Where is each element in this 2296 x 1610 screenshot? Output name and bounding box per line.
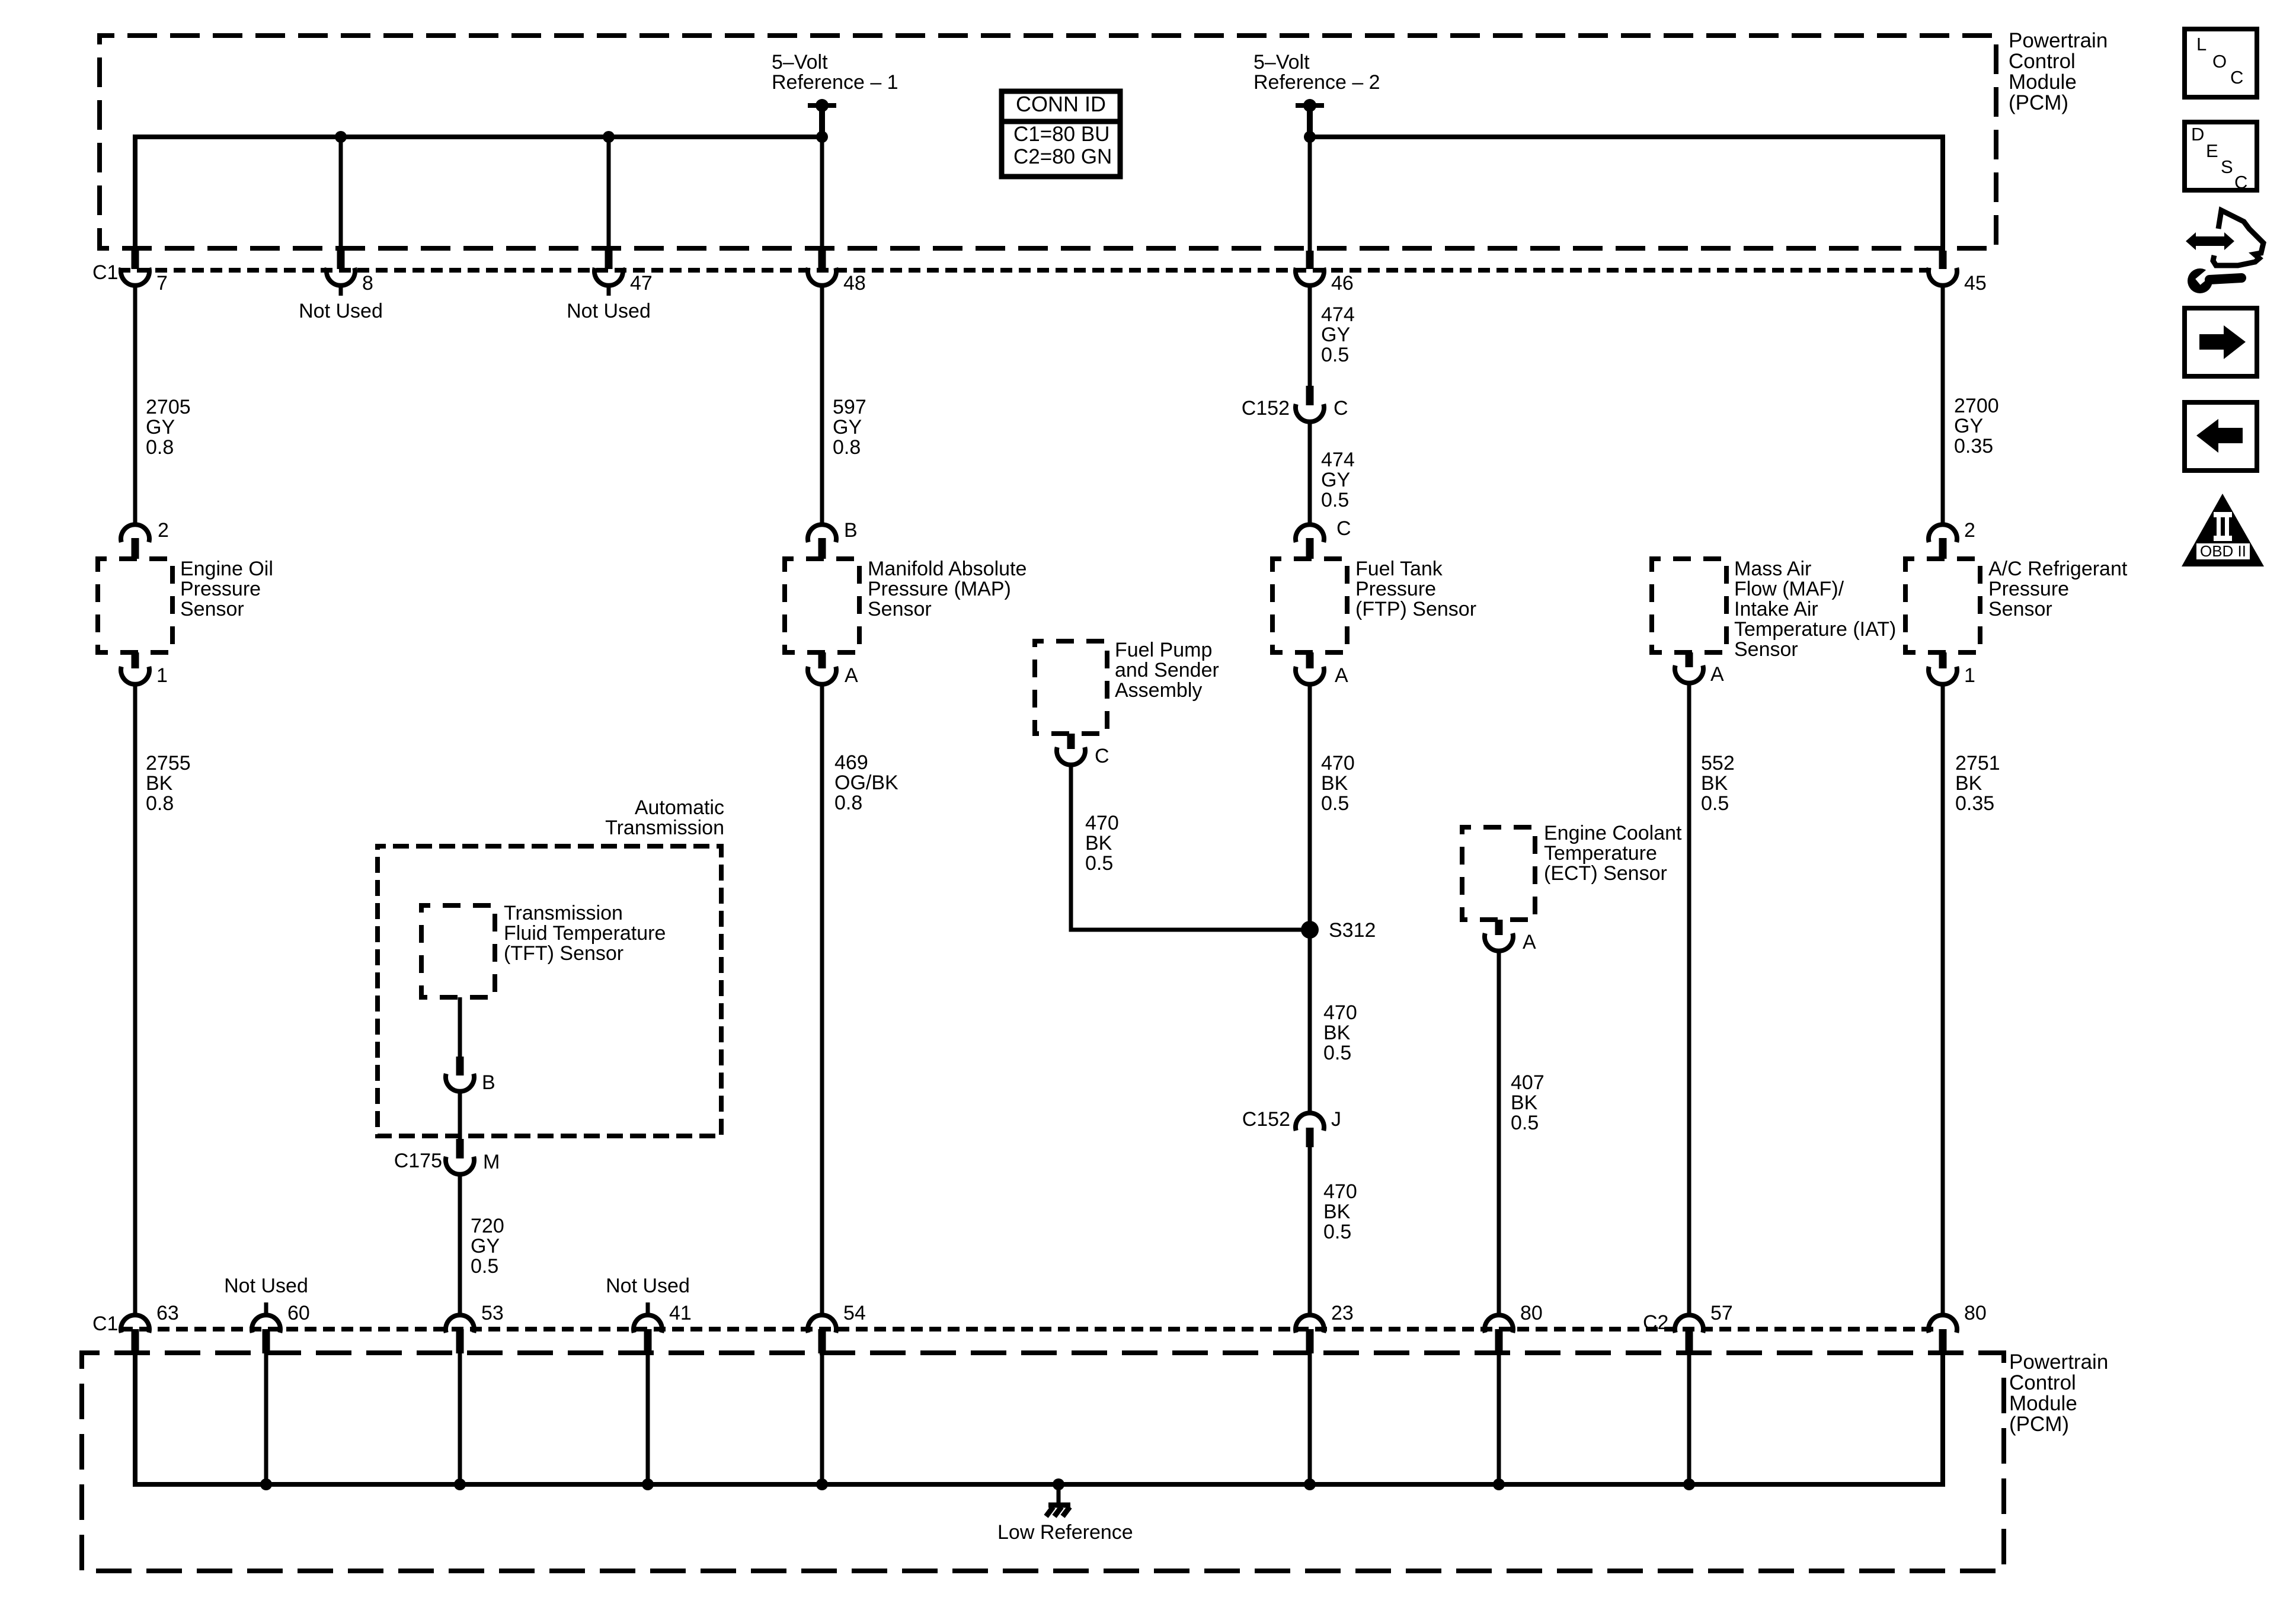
junction dot bus x 2850 xyxy=(1683,1478,1695,1490)
TFT sensor box xyxy=(421,905,495,997)
svg-text:Intake Air: Intake Air xyxy=(1734,598,1818,620)
svg-text:5–Volt: 5–Volt xyxy=(1253,51,1310,73)
svg-text:GY: GY xyxy=(146,416,175,438)
connector C1 pin 45 xyxy=(1939,251,1947,269)
svg-text:C1=80 BU: C1=80 BU xyxy=(1013,123,1109,146)
svg-text:Not Used: Not Used xyxy=(606,1275,690,1297)
svg-text:0.5: 0.5 xyxy=(1323,1042,1351,1064)
wire 470 S312 to C152 J xyxy=(1308,930,1312,1113)
MAP sensor box xyxy=(785,559,859,652)
svg-text:Not Used: Not Used xyxy=(224,1275,308,1297)
stub below pin 47 xyxy=(607,285,611,296)
svg-text:0.8: 0.8 xyxy=(833,436,861,459)
svg-text:23: 23 xyxy=(1331,1302,1354,1324)
svg-text:BK: BK xyxy=(1323,1022,1351,1044)
svg-text:J: J xyxy=(1331,1108,1341,1131)
svg-text:80: 80 xyxy=(1520,1302,1543,1324)
svg-text:GY: GY xyxy=(471,1235,500,1257)
connector pin B TFT xyxy=(456,1057,464,1076)
svg-text:470: 470 xyxy=(1085,812,1119,834)
svg-text:469: 469 xyxy=(834,751,868,774)
svg-text:597: 597 xyxy=(833,396,866,418)
connector pin A FTP xyxy=(1306,652,1314,668)
svg-text:0.5: 0.5 xyxy=(1321,489,1349,511)
connector pin B MAP xyxy=(808,524,836,542)
svg-text:Powertrain: Powertrain xyxy=(2009,1350,2108,1374)
svg-text:Fluid Temperature: Fluid Temperature xyxy=(504,922,666,945)
svg-text:60: 60 xyxy=(287,1302,310,1324)
svg-text:L: L xyxy=(2196,34,2207,55)
svg-text:63: 63 xyxy=(156,1302,179,1324)
svg-text:C: C xyxy=(1095,745,1109,767)
svg-text:470: 470 xyxy=(1323,1180,1357,1203)
ground junction dot xyxy=(1053,1478,1064,1490)
svg-text:Fuel Tank: Fuel Tank xyxy=(1355,558,1443,580)
svg-text:0.8: 0.8 xyxy=(146,436,174,459)
svg-text:0.35: 0.35 xyxy=(1955,792,1994,815)
svg-text:A: A xyxy=(1523,931,1536,953)
icon DESC box xyxy=(2185,122,2257,190)
icon left arrow box xyxy=(2185,402,2257,470)
svg-text:552: 552 xyxy=(1701,752,1735,774)
wire 2705 GY xyxy=(133,285,137,525)
svg-text:GY: GY xyxy=(1954,415,1983,437)
svg-text:2: 2 xyxy=(158,519,169,542)
svg-text:A: A xyxy=(1710,663,1724,686)
svg-text:Sensor: Sensor xyxy=(868,598,932,620)
svg-text:BK: BK xyxy=(1321,772,1348,795)
junction dot bus x 776 xyxy=(454,1478,466,1490)
svg-text:54: 54 xyxy=(843,1302,866,1324)
svg-text:O: O xyxy=(2212,51,2227,72)
connector bottom pin 53 at x 776 xyxy=(446,1315,474,1333)
svg-text:B: B xyxy=(482,1071,495,1094)
wire pin into box x 776 xyxy=(458,1353,462,1484)
junction dot pin 8 stub xyxy=(335,131,347,143)
connector bottom pin 63 at x 228 xyxy=(121,1315,149,1333)
svg-text:41: 41 xyxy=(669,1302,692,1324)
junction dot bus x 449 xyxy=(260,1478,272,1490)
connector C1 pin 47 xyxy=(605,251,613,269)
ground symbol xyxy=(1057,1484,1061,1503)
svg-text:Reference – 2: Reference – 2 xyxy=(1253,71,1380,94)
junction dot bus x 1093 xyxy=(642,1478,654,1490)
low reference bus xyxy=(135,1353,1943,1484)
svg-text:Pressure: Pressure xyxy=(1988,578,2069,600)
svg-text:Temperature (IAT): Temperature (IAT) xyxy=(1734,618,1896,641)
svg-text:GY: GY xyxy=(1321,469,1350,491)
wire 2755 BK xyxy=(133,684,137,1315)
svg-text:0.35: 0.35 xyxy=(1954,435,1993,457)
wire stub to pin 8 xyxy=(339,137,343,251)
PCM bottom module box (dashed) xyxy=(82,1353,2004,1571)
svg-text:0.5: 0.5 xyxy=(1321,344,1349,366)
svg-text:Temperature: Temperature xyxy=(1544,842,1657,865)
svg-text:OBD II: OBD II xyxy=(2200,542,2246,560)
svg-text:1: 1 xyxy=(156,664,168,687)
svg-text:0.8: 0.8 xyxy=(834,792,862,814)
junction dot ref 1 xyxy=(816,131,828,143)
svg-text:48: 48 xyxy=(843,272,866,295)
wire 597 GY xyxy=(820,285,824,525)
svg-text:80: 80 xyxy=(1964,1302,1987,1324)
svg-text:A: A xyxy=(845,664,858,687)
power feed symbol ref 1 xyxy=(808,103,836,108)
svg-text:Sensor: Sensor xyxy=(1988,598,2052,620)
connector pin 2 AC xyxy=(1929,524,1957,542)
svg-text:E: E xyxy=(2206,140,2218,161)
svg-text:Pressure: Pressure xyxy=(1355,578,1436,600)
wire 469 OG/BK xyxy=(820,684,824,1315)
CONN ID box xyxy=(1002,91,1120,177)
svg-text:0.5: 0.5 xyxy=(1085,852,1113,875)
svg-text:470: 470 xyxy=(1321,752,1355,774)
svg-text:C2: C2 xyxy=(1643,1311,1668,1334)
connector pin C fuel pump xyxy=(1067,734,1075,749)
bottom connector line C1 (dotted) xyxy=(121,1327,1933,1331)
svg-text:Pressure (MAP): Pressure (MAP) xyxy=(868,578,1011,600)
wire B to C175 xyxy=(458,1091,462,1139)
wire ref2 to pin 46 xyxy=(1308,137,1312,251)
top connector line C1 (dotted) xyxy=(119,268,1933,273)
svg-text:Reference – 1: Reference – 1 xyxy=(772,71,898,94)
svg-text:7: 7 xyxy=(156,272,168,295)
svg-text:Sensor: Sensor xyxy=(180,598,244,620)
junction dot bus x 2210 xyxy=(1304,1478,1316,1490)
wire pin into box x 2850 xyxy=(1687,1353,1691,1484)
svg-text:CONN ID: CONN ID xyxy=(1016,92,1106,116)
icon LOC box xyxy=(2185,29,2257,97)
svg-text:Pressure: Pressure xyxy=(180,578,261,600)
svg-text:(PCM): (PCM) xyxy=(2009,1413,2069,1436)
svg-text:5–Volt: 5–Volt xyxy=(772,51,828,73)
svg-text:Control: Control xyxy=(2009,50,2076,73)
svg-text:8: 8 xyxy=(362,272,373,295)
svg-text:S: S xyxy=(2221,156,2233,177)
svg-text:0.5: 0.5 xyxy=(1701,792,1729,815)
svg-text:Control: Control xyxy=(2009,1371,2076,1394)
svg-text:2700: 2700 xyxy=(1954,395,1999,417)
connector bottom pin 60 at x 449 xyxy=(252,1315,280,1333)
svg-text:C152: C152 xyxy=(1242,1108,1290,1131)
svg-text:47: 47 xyxy=(630,272,653,295)
svg-text:0.5: 0.5 xyxy=(1511,1112,1539,1134)
inline connector C152 C xyxy=(1306,386,1314,405)
svg-text:B: B xyxy=(844,519,858,542)
stub below pin 8 xyxy=(339,285,343,296)
wire pin into box x 449 xyxy=(264,1353,268,1484)
power feed symbol ref 2 xyxy=(1296,103,1324,108)
splice S312 xyxy=(1301,921,1319,939)
icon right arrow box xyxy=(2185,308,2257,376)
svg-text:C: C xyxy=(1334,397,1348,420)
svg-text:Fuel Pump: Fuel Pump xyxy=(1115,639,1212,661)
svg-text:BK: BK xyxy=(1323,1201,1351,1223)
svg-text:(ECT) Sensor: (ECT) Sensor xyxy=(1544,862,1667,885)
wire ref1 to pin 48 xyxy=(820,137,824,251)
svg-text:BK: BK xyxy=(1511,1092,1538,1114)
svg-text:Transmission: Transmission xyxy=(605,817,724,839)
svg-text:Sensor: Sensor xyxy=(1734,638,1798,661)
svg-text:C: C xyxy=(1336,517,1351,540)
svg-text:and Sender: and Sender xyxy=(1115,659,1219,681)
connector bottom pin 54 at x 1387 xyxy=(808,1315,836,1333)
svg-text:C: C xyxy=(2230,67,2243,88)
svg-text:C175: C175 xyxy=(394,1150,442,1172)
MAF sensor box xyxy=(1652,559,1726,652)
wire 470 to pin 23 xyxy=(1308,1147,1312,1315)
ECT sensor box xyxy=(1462,827,1535,920)
connector bottom pin 80 at x 2529 xyxy=(1485,1315,1513,1333)
wire TFT to B xyxy=(458,997,462,1057)
svg-text:C1: C1 xyxy=(92,1313,118,1335)
wire pin into box x 2529 xyxy=(1497,1353,1501,1484)
connector C1 pin 48 xyxy=(818,251,826,269)
connector C1 pin 46 xyxy=(1306,251,1314,269)
wire 2700 GY xyxy=(1941,285,1945,525)
svg-text:Engine Coolant: Engine Coolant xyxy=(1544,822,1682,844)
svg-text:Module: Module xyxy=(2009,71,2077,94)
svg-text:Module: Module xyxy=(2009,1392,2077,1415)
wire 2751 BK xyxy=(1941,684,1945,1315)
svg-text:Assembly: Assembly xyxy=(1115,679,1202,702)
connector bottom pin 23 at x 2210 xyxy=(1296,1315,1324,1333)
svg-text:46: 46 xyxy=(1331,272,1354,295)
5V ref 2 bus wire xyxy=(1310,137,1943,251)
fuel pump box xyxy=(1035,641,1107,734)
svg-text:474: 474 xyxy=(1321,449,1355,471)
svg-text:A: A xyxy=(1335,664,1348,687)
svg-text:Low Reference: Low Reference xyxy=(997,1521,1133,1544)
icon OBD II triangle xyxy=(2182,494,2264,566)
inline connector C175 M xyxy=(456,1139,464,1158)
svg-text:Manifold Absolute: Manifold Absolute xyxy=(868,558,1027,580)
FTP sensor box xyxy=(1272,559,1347,652)
automatic transmission box xyxy=(378,846,721,1136)
stub above pin 60 xyxy=(264,1302,268,1316)
svg-text:(PCM): (PCM) xyxy=(2009,91,2068,114)
wire 470 fuel pump xyxy=(1071,764,1310,930)
svg-text:BK: BK xyxy=(1955,772,1982,795)
svg-text:D: D xyxy=(2191,124,2204,145)
connector pin 2 EOP xyxy=(121,524,149,542)
svg-text:Automatic: Automatic xyxy=(635,796,724,819)
svg-text:S312: S312 xyxy=(1329,919,1376,942)
AC pressure sensor box xyxy=(1905,559,1980,652)
wire pin into box x 1093 xyxy=(646,1353,650,1484)
svg-text:0.5: 0.5 xyxy=(471,1255,498,1278)
connector bottom pin 41 at x 1093 xyxy=(634,1315,662,1333)
wire 552 BK xyxy=(1687,683,1691,1315)
inline connector C152 J xyxy=(1296,1113,1324,1131)
svg-text:57: 57 xyxy=(1710,1302,1733,1324)
connector pin A MAP xyxy=(818,652,826,668)
wire pin into box x 2210 xyxy=(1308,1353,1312,1484)
svg-text:474: 474 xyxy=(1321,303,1355,326)
junction dot ref 2 xyxy=(1304,131,1316,143)
svg-text:Transmission: Transmission xyxy=(504,902,623,924)
svg-text:(FTP) Sensor: (FTP) Sensor xyxy=(1355,598,1476,620)
svg-text:0.5: 0.5 xyxy=(1321,792,1349,815)
svg-text:M: M xyxy=(483,1151,500,1173)
svg-text:C1: C1 xyxy=(92,261,118,284)
svg-text:BK: BK xyxy=(1701,772,1728,795)
svg-text:GY: GY xyxy=(1321,324,1350,346)
svg-text:GY: GY xyxy=(833,416,862,438)
svg-text:BK: BK xyxy=(146,772,173,795)
connector pin A MAF xyxy=(1686,652,1693,667)
wire 407 BK xyxy=(1497,950,1501,1315)
svg-text:720: 720 xyxy=(471,1215,504,1237)
junction dot bus x 1387 xyxy=(816,1478,828,1490)
stub above pin 41 xyxy=(646,1302,650,1316)
svg-text:A/C Refrigerant: A/C Refrigerant xyxy=(1988,558,2128,580)
svg-text:1: 1 xyxy=(1964,664,1975,687)
svg-text:407: 407 xyxy=(1511,1071,1544,1094)
svg-text:53: 53 xyxy=(481,1302,504,1324)
engine oil pressure sensor box xyxy=(98,559,172,652)
svg-text:(TFT) Sensor: (TFT) Sensor xyxy=(504,942,623,965)
wire 470 FTP to S312 xyxy=(1308,684,1312,930)
svg-text:2755: 2755 xyxy=(146,752,191,774)
5V ref 1 bus wire xyxy=(135,137,822,251)
junction dot bus x 2529 xyxy=(1493,1478,1505,1490)
svg-text:BK: BK xyxy=(1085,832,1112,854)
svg-text:2705: 2705 xyxy=(146,396,191,418)
PCM top module box (dashed) xyxy=(100,36,1996,248)
svg-text:C: C xyxy=(2234,172,2247,193)
connector C1 pin 7 xyxy=(132,251,139,269)
connector C1 pin 8 xyxy=(337,251,345,269)
svg-text:OG/BK: OG/BK xyxy=(834,772,898,794)
junction dot pin 47 stub xyxy=(603,131,615,143)
connector pin C FTP xyxy=(1296,524,1324,542)
svg-text:0.5: 0.5 xyxy=(1323,1221,1351,1243)
svg-text:Engine Oil: Engine Oil xyxy=(180,558,273,580)
connector pin A ECT xyxy=(1495,920,1503,935)
wire 474 GY lower xyxy=(1308,421,1312,525)
wire pin into box x 1387 xyxy=(820,1353,824,1484)
svg-text:45: 45 xyxy=(1964,272,1987,295)
svg-text:2751: 2751 xyxy=(1955,752,2000,774)
svg-text:Not Used: Not Used xyxy=(299,300,383,322)
svg-text:Flow (MAF)/: Flow (MAF)/ xyxy=(1734,578,1844,600)
connector pin 1 EOP xyxy=(132,652,139,668)
wire 474 GY upper xyxy=(1308,285,1312,386)
connector pin 1 AC xyxy=(1939,652,1947,668)
wire 720 GY xyxy=(458,1174,462,1315)
svg-text:0.8: 0.8 xyxy=(146,792,174,815)
wire stub to pin 47 xyxy=(607,137,611,251)
svg-text:470: 470 xyxy=(1323,1001,1357,1024)
connector bottom pin 80 at x 3278 xyxy=(1929,1315,1957,1333)
svg-text:Mass Air: Mass Air xyxy=(1734,558,1811,580)
connector bottom pin 57 at x 2850 xyxy=(1675,1315,1703,1333)
svg-text:Powertrain: Powertrain xyxy=(2009,29,2108,52)
svg-text:C152: C152 xyxy=(1242,397,1290,420)
svg-text:2: 2 xyxy=(1964,519,1975,542)
svg-text:C2=80 GN: C2=80 GN xyxy=(1013,145,1112,168)
icon service tool (arrow + outline + wrench) xyxy=(2213,210,2263,265)
svg-text:Not Used: Not Used xyxy=(567,300,651,322)
